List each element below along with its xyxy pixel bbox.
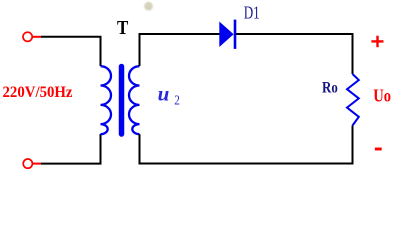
svg-text:T: T [117, 18, 128, 39]
svg-text:220V/50Hz: 220V/50Hz [3, 84, 73, 101]
svg-text:u: u [158, 82, 170, 106]
svg-text:Uo: Uo [373, 85, 391, 105]
svg-text:Ro: Ro [322, 80, 338, 97]
svg-text:D1: D1 [244, 2, 260, 22]
svg-text:2: 2 [174, 93, 180, 108]
